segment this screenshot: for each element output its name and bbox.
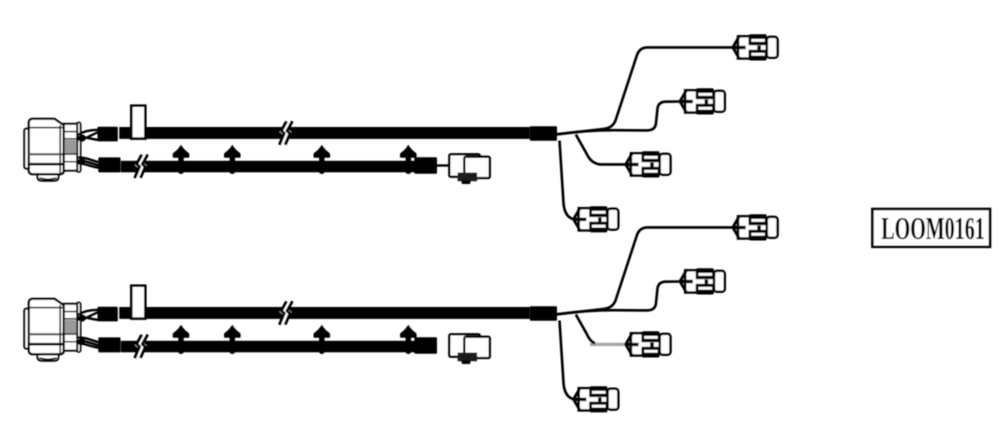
svg-text:LOOM0161: LOOM0161 (881, 210, 984, 246)
ferrule (lower cable, at J2) (98, 337, 120, 352)
plug P12 (2-pin) (680, 88, 725, 114)
wire (junction to plug P12) (557, 102, 680, 135)
lower cable (thick loom) (121, 341, 415, 353)
plug P21 (2-pin) (733, 214, 778, 240)
wire (junction to plug P14) (560, 141, 573, 219)
wire bundle (upper twisted pair from J1) (78, 130, 99, 141)
branch tap arrow 2 (lower cable) (224, 325, 241, 354)
upper cable (thick loom) (119, 127, 530, 139)
connector J2 (main multi-pin plug) (24, 299, 80, 361)
connector J1 (main multi-pin plug) (24, 119, 80, 181)
break mark (upper cable) (279, 301, 292, 325)
plug P13 (2-pin) (626, 151, 671, 177)
wire bundle (lower twisted pair from J2) (78, 337, 99, 347)
plug P22 (2-pin) (680, 268, 725, 294)
plug P24 (2-pin) (574, 386, 619, 412)
end connector E2 (lower cable) (449, 334, 490, 364)
junction ferrule (upper cable end) (530, 306, 557, 320)
lower cable (thick loom) (121, 161, 415, 173)
break mark (lower cable) (135, 335, 148, 359)
wire (junction to plug P21) (557, 227, 733, 314)
wire (junction to plug P23) (576, 315, 595, 344)
end connector E1 (lower cable) (449, 154, 490, 184)
end ferrule (lower cable) (414, 337, 437, 354)
clip tab on upper cable (131, 286, 145, 319)
plug P14 (2-pin) (574, 206, 619, 232)
branch tap arrow 3 (lower cable) (313, 145, 330, 174)
break mark (upper cable) (279, 121, 292, 145)
plug P11 (2-pin) (733, 34, 778, 60)
wire (ferrule to end connector) (437, 164, 452, 166)
branch tap arrow 3 (lower cable) (313, 325, 330, 354)
wire (junction to plug P13) (576, 135, 626, 165)
plug P23 (2-pin) (626, 331, 671, 357)
clip tab on upper cable (131, 106, 145, 139)
wire bundle (lower twisted pair from J1) (78, 157, 99, 167)
wire (junction to plug P11) (557, 47, 733, 134)
wire (junction to plug P24) (560, 321, 573, 399)
branch tap arrow 1 (lower cable) (173, 145, 190, 174)
branch tap arrow 4 (lower cable) (400, 325, 417, 354)
ferrule (upper cable, at J2) (98, 307, 118, 322)
label box LOOM0161 (872, 209, 990, 247)
wire bundle (upper twisted pair from J2) (78, 310, 99, 321)
branch tap arrow 2 (lower cable) (224, 145, 241, 174)
branch tap arrow 4 (lower cable) (400, 145, 417, 174)
upper cable (thick loom) (119, 307, 530, 319)
wire (grey segment to plug P23) (590, 343, 627, 346)
ferrule (upper cable, at J1) (98, 127, 118, 142)
ferrule (lower cable, at J1) (98, 157, 120, 172)
branch tap arrow 1 (lower cable) (173, 325, 190, 354)
end ferrule (lower cable) (414, 157, 437, 174)
junction ferrule (upper cable end) (530, 126, 557, 140)
wire (junction to plug P22) (557, 282, 680, 315)
break mark (lower cable) (135, 155, 148, 179)
